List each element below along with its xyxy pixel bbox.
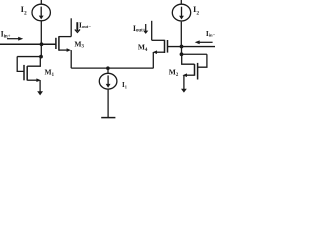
wire: M2 diode connection top line [182, 53, 207, 55]
arrow: Iin+ direction [7, 37, 23, 41]
ground arrow below M2 [181, 75, 187, 92]
wire: M3 drain to output terminal [70, 18, 72, 36]
wire: input rail Iin+ [0, 43, 56, 45]
ground [101, 117, 115, 119]
transistor M3 [56, 36, 71, 52]
arrow: Iin- direction [195, 40, 213, 44]
wire: top feed to left I2 [40, 0, 42, 4]
wire: rail down to M2 drain node [181, 47, 183, 55]
arrow: Iout- direction [75, 22, 80, 32]
node: rail junction left [40, 42, 44, 46]
node: M1 drain node [39, 55, 43, 59]
transistor M2 [182, 54, 207, 79]
current source I2 (left) [32, 4, 50, 21]
transistor M4 [152, 40, 168, 54]
current source I1 [99, 73, 117, 89]
wire: top feed to right I2 [180, 0, 182, 4]
wire: right I2 to input rail [180, 22, 182, 47]
wire: input rail Iin- [168, 46, 216, 48]
node: M2 drain node [180, 52, 184, 56]
wire: tail junction to I1 [107, 68, 109, 73]
node: tail junction [106, 66, 110, 70]
wire: tail rail [71, 67, 153, 69]
wire: M1 diode connection top line [17, 56, 41, 58]
wire: M4 source down to tail [152, 52, 154, 68]
wire: M3 source down to tail [70, 50, 72, 68]
current source I2 (right) [172, 4, 190, 21]
transistor M1 [17, 57, 41, 82]
ground arrow below M1 [37, 80, 43, 95]
wire: I1 to ground [107, 89, 109, 118]
wire: M4 drain to output terminal [151, 21, 153, 41]
node: rail junction right [180, 45, 184, 49]
wire: left I2 to input rail [40, 21, 42, 44]
arrow: Iout+ direction [143, 24, 148, 34]
wire: rail down to M1 drain node [40, 44, 42, 56]
